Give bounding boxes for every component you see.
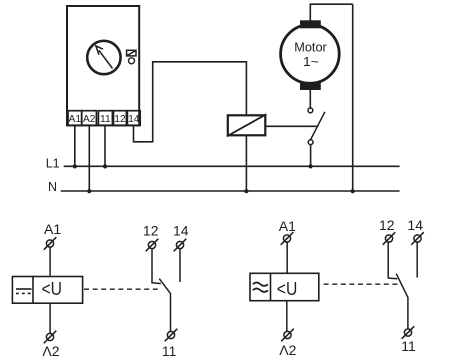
motor label: [294, 39, 327, 69]
svg-text:12: 12: [114, 114, 126, 125]
wire contact 14 left: [179, 249, 181, 282]
junction 11/L1: [103, 164, 107, 168]
relay coil K1: [227, 114, 267, 136]
svg-text:N: N: [48, 180, 57, 194]
wire box to A2 bottom left: [49, 304, 51, 334]
undervoltage relay box AC version: [250, 273, 319, 302]
wire A1 to relay box AC: [286, 242, 288, 272]
LED indicator: [129, 58, 135, 64]
wire common 11 left: [170, 293, 172, 332]
wire box to A2 bottom right: [286, 302, 288, 332]
terminal 14: [127, 111, 140, 126]
terminal A2: [82, 111, 97, 126]
wire contact 12 left: [151, 249, 153, 283]
junction right rail/N: [351, 189, 355, 193]
wire coil to N: [245, 136, 247, 191]
wire common 11 right: [407, 297, 409, 329]
terminal 14 left: [174, 239, 187, 252]
svg-text:11: 11: [162, 343, 177, 359]
junction switch/L1: [309, 164, 313, 168]
wire contact 12 right: [387, 242, 389, 278]
svg-text:1~: 1~: [303, 54, 319, 69]
svg-text:A1: A1: [279, 218, 296, 234]
terminal 11: [98, 111, 112, 126]
DC supply symbol: [16, 289, 32, 293]
switch blade right: [396, 274, 408, 298]
terminal A2 bottom right: [281, 329, 294, 342]
wire motor top to right rail: [310, 4, 352, 21]
svg-text:A1: A1: [68, 114, 81, 125]
terminal A1: [68, 111, 82, 126]
switch blade left: [159, 279, 170, 294]
wire contact 14 right: [416, 242, 418, 277]
actuation dashed link left: [84, 288, 160, 290]
potentiometer symbol: [127, 50, 136, 56]
wire A1 to relay box DC: [49, 247, 51, 276]
svg-text:L1: L1: [46, 156, 60, 170]
terminal 11 left: [165, 329, 178, 342]
L1 rail: [64, 165, 400, 167]
wire 14 to relay coil: [134, 62, 247, 142]
undervoltage relay box DC version: [12, 276, 82, 304]
svg-text:A2: A2: [83, 114, 96, 125]
terminal 12: [114, 111, 127, 126]
svg-text:12: 12: [143, 223, 159, 239]
junction A1/L1: [73, 164, 77, 168]
terminal 14 right: [411, 232, 424, 245]
terminal 11 right: [402, 326, 415, 339]
svg-text:11: 11: [100, 114, 111, 125]
junction coil/N: [244, 189, 248, 193]
monitoring relay device box U1: [67, 6, 139, 125]
junction A2/N: [87, 189, 91, 193]
motor M1: [281, 20, 340, 90]
right rail motor to N: [352, 4, 354, 191]
wire A1 to L1: [74, 125, 76, 167]
contact 12 foot right: [388, 277, 398, 280]
dial pointer: [96, 46, 113, 69]
contact 12 foot left: [151, 283, 161, 284]
svg-text:11: 11: [401, 338, 416, 354]
svg-text:Λ2: Λ2: [42, 343, 59, 359]
terminal A2 bottom left: [44, 331, 57, 344]
svg-text:14: 14: [407, 217, 423, 233]
terminal A1 bottom right: [281, 232, 294, 245]
actuation dashed link right: [324, 283, 400, 285]
svg-text:Motor: Motor: [294, 39, 327, 54]
N rail: [61, 190, 400, 192]
terminal 12 right: [383, 232, 396, 245]
wire 11 to L1: [104, 125, 106, 167]
svg-text:<U: <U: [42, 279, 63, 299]
svg-text:Λ2: Λ2: [279, 342, 296, 358]
svg-text:12: 12: [379, 217, 395, 233]
dial: [87, 41, 120, 74]
wire A2 to N: [88, 125, 90, 191]
wire switch to L1: [310, 145, 312, 167]
wire motor bottom to switch: [309, 90, 311, 108]
switch blade: [311, 112, 325, 140]
svg-text:14: 14: [128, 114, 140, 125]
switch bottom contact: [308, 140, 313, 145]
svg-text:A1: A1: [44, 221, 61, 237]
switch top contact: [308, 108, 313, 113]
svg-text:<U: <U: [277, 279, 298, 299]
wire coil to switch blade: [266, 125, 317, 127]
AC supply symbol: [253, 283, 268, 292]
svg-text:14: 14: [173, 223, 189, 239]
terminal A1 bottom left: [44, 237, 57, 250]
terminal 12 left: [146, 239, 159, 252]
